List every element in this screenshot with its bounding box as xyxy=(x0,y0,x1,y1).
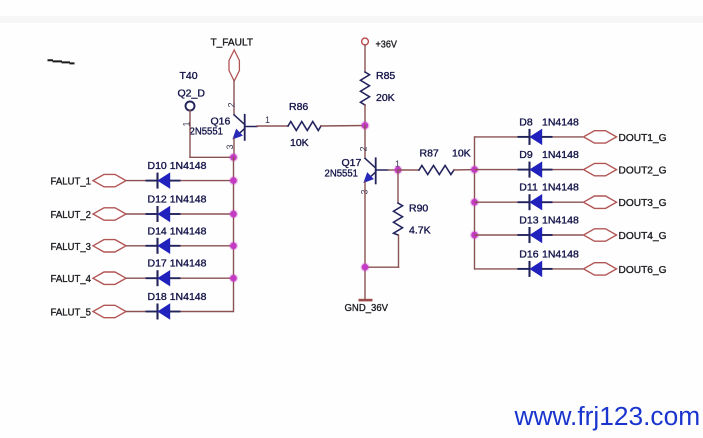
port Q2_D circle xyxy=(186,102,195,111)
wire D17 to left bus xyxy=(181,277,234,279)
wire D9 to port DOUT2_G xyxy=(553,169,584,171)
svg-text:4.7K: 4.7K xyxy=(409,225,431,237)
wire D13 to port DOUT4_G xyxy=(553,234,584,236)
wire node A to Q17 collector xyxy=(364,126,366,159)
node junction Q2_D/emitter xyxy=(229,153,238,162)
svg-text:2: 2 xyxy=(227,102,237,107)
transistor Q17 xyxy=(364,158,388,183)
svg-text:Q2_D: Q2_D xyxy=(178,88,206,100)
resistor R90 xyxy=(394,203,403,235)
node junction emitter/R90 xyxy=(360,263,369,272)
wire Q2_D to left bus xyxy=(190,156,234,158)
svg-text:D17: D17 xyxy=(148,258,167,270)
wire Q16 base to R86 xyxy=(257,125,288,127)
svg-text:D18: D18 xyxy=(148,291,167,303)
svg-text:www.frj123.com: www.frj123.com xyxy=(514,401,701,431)
svg-text:GND_36V: GND_36V xyxy=(345,302,389,314)
svg-text:1N4148: 1N4148 xyxy=(542,248,579,260)
svg-text:D9: D9 xyxy=(519,149,533,161)
svg-text:T40: T40 xyxy=(180,70,198,82)
wire T_FAULT to Q16 collector xyxy=(233,81,235,115)
svg-text:1N4148: 1N4148 xyxy=(170,160,207,172)
resistor R86 xyxy=(288,122,321,131)
port FALUT_2 hexagon xyxy=(93,208,126,220)
port FALUT_5 hexagon xyxy=(93,305,126,317)
wire FALUT_4 to D17 xyxy=(126,277,146,279)
svg-text:D13: D13 xyxy=(519,215,538,227)
wire R87 to right bus xyxy=(454,169,475,171)
diode D12 xyxy=(146,206,181,222)
svg-text:DOUT3_G: DOUT3_G xyxy=(619,197,667,209)
wire node B to R87 xyxy=(398,169,419,171)
node junction right bus row3 xyxy=(470,198,479,207)
wire right bus xyxy=(474,137,476,269)
port DOUT6_G hexagon xyxy=(584,263,617,275)
svg-text:2: 2 xyxy=(359,146,369,151)
node junction left bus FALUT_1 xyxy=(229,176,238,185)
wire R90 to emitter xyxy=(365,266,399,268)
svg-text:R85: R85 xyxy=(376,70,395,82)
wire D16 to port DOUT6_G xyxy=(553,268,584,270)
svg-text:T_FAULT: T_FAULT xyxy=(211,37,254,49)
svg-text:1N4148: 1N4148 xyxy=(170,194,207,206)
svg-text:FALUT_3: FALUT_3 xyxy=(51,241,92,253)
diode D16 xyxy=(518,261,553,277)
wire D12 to left bus xyxy=(181,213,234,215)
svg-text:DOUT1_G: DOUT1_G xyxy=(619,132,667,144)
svg-text:2N5551: 2N5551 xyxy=(325,168,359,180)
svg-text:1N4148: 1N4148 xyxy=(542,149,579,161)
resistor R87 xyxy=(419,166,454,175)
resistor R85 xyxy=(361,72,370,105)
svg-text:D14: D14 xyxy=(148,225,167,237)
wire Q17 base to node B xyxy=(388,169,398,171)
svg-text:FALUT_1: FALUT_1 xyxy=(51,176,92,188)
wire right bus to D8 xyxy=(475,136,518,138)
diode D8 xyxy=(518,129,553,145)
svg-text:R90: R90 xyxy=(409,203,428,215)
svg-text:1N4148: 1N4148 xyxy=(542,215,579,227)
svg-text:10K: 10K xyxy=(290,137,309,149)
svg-text:FALUT_5: FALUT_5 xyxy=(51,307,92,319)
port DOUT3_G hexagon xyxy=(584,196,617,208)
wire FALUT_5 to D18 xyxy=(126,311,146,313)
node junction left bus FALUT_2 xyxy=(229,209,238,218)
wire left bus xyxy=(233,157,235,311)
wire FALUT_1 to D10 xyxy=(126,180,146,182)
diode D14 xyxy=(146,238,181,254)
power +36V circle xyxy=(362,38,369,45)
wire R85 to node A xyxy=(364,105,366,126)
svg-text:FALUT_2: FALUT_2 xyxy=(51,209,92,221)
svg-text:1N4148: 1N4148 xyxy=(170,291,207,303)
node junction right bus row2 xyxy=(470,165,479,174)
svg-text:DOUT2_G: DOUT2_G xyxy=(619,165,667,177)
wire node B to R90 xyxy=(397,170,399,203)
port T_FAULT hexagon xyxy=(229,50,239,81)
svg-text:DOUT6_G: DOUT6_G xyxy=(619,264,667,276)
svg-text:D11: D11 xyxy=(519,182,538,194)
port FALUT_3 hexagon xyxy=(93,240,126,252)
svg-text:FALUT_4: FALUT_4 xyxy=(51,273,92,285)
wire Q2_D down xyxy=(189,110,191,157)
wire Q16 emitter down xyxy=(233,138,235,157)
svg-text:+36V: +36V xyxy=(376,39,398,51)
svg-text:1N4148: 1N4148 xyxy=(542,182,579,194)
svg-text:D10: D10 xyxy=(148,160,167,172)
svg-text:1N4148: 1N4148 xyxy=(542,116,579,128)
wire D8 to port DOUT1_G xyxy=(553,136,584,138)
diode D10 xyxy=(146,173,181,189)
wire D10 to left bus xyxy=(181,180,234,182)
svg-text:1N4148: 1N4148 xyxy=(170,225,207,237)
wire FALUT_2 to D12 xyxy=(126,213,146,215)
wire right bus to D11 xyxy=(475,201,518,203)
svg-text:1: 1 xyxy=(265,115,270,125)
wire Q17 emitter down xyxy=(364,182,366,299)
wire D11 to port DOUT3_G xyxy=(553,201,584,203)
node junction left bus FALUT_4 xyxy=(229,274,238,283)
svg-text:1N4148: 1N4148 xyxy=(170,258,207,270)
svg-text:R87: R87 xyxy=(420,148,439,160)
diode D9 xyxy=(518,162,553,178)
node A junction R85/R86/Q17 xyxy=(360,121,369,130)
diode D17 xyxy=(146,270,181,286)
wire right bus to D9 xyxy=(475,169,518,171)
transistor Q16 xyxy=(233,115,257,140)
wire R86 to node A xyxy=(321,125,365,128)
svg-text:20K: 20K xyxy=(376,92,395,104)
port DOUT4_G hexagon xyxy=(584,229,617,241)
svg-text:D12: D12 xyxy=(148,194,167,206)
wire +36V to R85 xyxy=(364,45,366,72)
port DOUT1_G hexagon xyxy=(584,131,617,143)
svg-text:10K: 10K xyxy=(452,148,471,160)
svg-text:R86: R86 xyxy=(289,101,308,113)
wire D18 to left bus xyxy=(181,311,234,313)
wire right bus to D13 xyxy=(475,234,518,236)
port FALUT_1 hexagon xyxy=(93,174,126,186)
svg-text:D8: D8 xyxy=(519,116,533,128)
port FALUT_4 hexagon xyxy=(93,272,126,284)
node junction left bus FALUT_3 xyxy=(229,241,238,250)
wire FALUT_3 to D14 xyxy=(126,245,146,247)
black dash artifact top-left xyxy=(48,60,75,63)
wire right bus to D16 xyxy=(475,268,518,270)
power GND_36V bar xyxy=(359,299,373,302)
diode D13 xyxy=(518,227,553,243)
faint gray band artifact xyxy=(0,16,703,23)
port DOUT2_G hexagon xyxy=(584,163,617,175)
wire R90 down xyxy=(398,235,400,267)
svg-text:DOUT4_G: DOUT4_G xyxy=(619,230,667,242)
svg-text:2N5551: 2N5551 xyxy=(190,126,224,138)
wire D14 to left bus xyxy=(181,245,234,247)
diode D11 xyxy=(518,194,553,210)
node junction right bus row4 xyxy=(470,230,479,239)
diode D18 xyxy=(146,304,181,320)
node B junction base/R87/R90 xyxy=(393,165,402,174)
svg-text:D16: D16 xyxy=(519,248,538,260)
